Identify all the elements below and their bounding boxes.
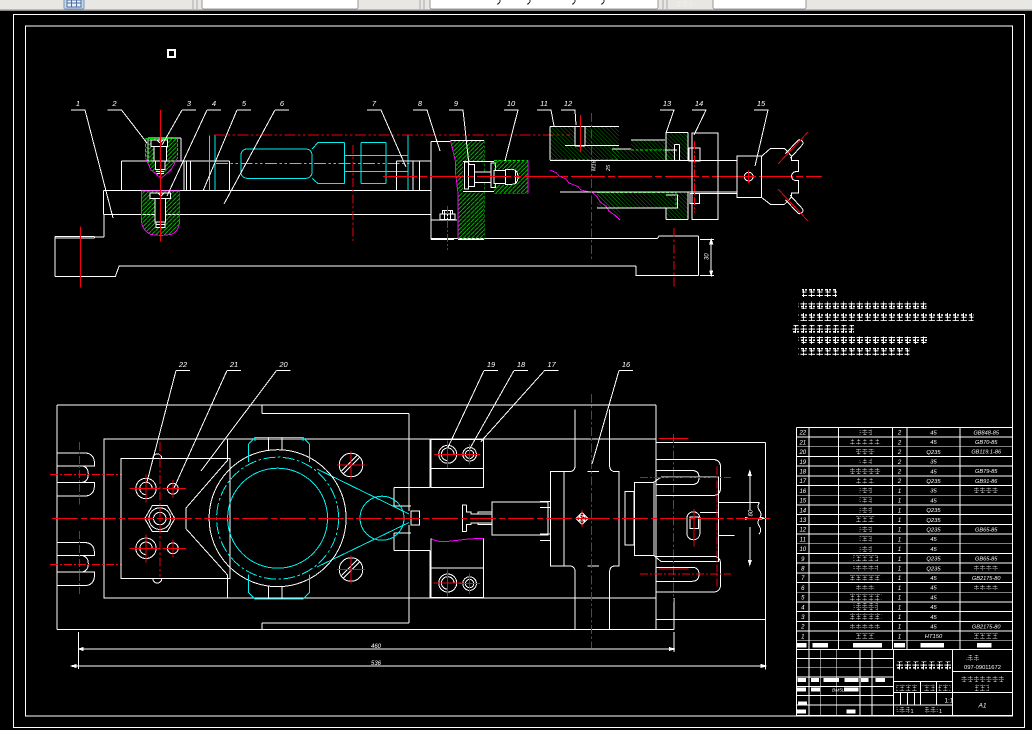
- support plate 6: [104, 191, 431, 215]
- svg-text:1: 1: [898, 634, 901, 640]
- toolbar combo box 1: [202, 0, 358, 9]
- shaft step: [625, 492, 634, 546]
- fixture body outline plan: [57, 405, 674, 630]
- bolt block top 17-19: [431, 440, 484, 488]
- handle grip lower: [778, 189, 808, 221]
- svg-text:2: 2: [897, 479, 902, 485]
- lower fastening screw hatch pocket: [142, 191, 180, 236]
- collar flange tab top: [249, 438, 310, 463]
- svg-text:45: 45: [930, 440, 937, 446]
- callout 9: [449, 99, 469, 165]
- center hole diamond: [576, 512, 588, 524]
- washer right: [689, 148, 700, 161]
- bracket block plan: [634, 477, 761, 561]
- workpiece connecting rod (phantom cyan): [210, 136, 411, 191]
- svg-text:11: 11: [800, 537, 806, 543]
- svg-text:45: 45: [930, 595, 937, 601]
- red horizontals through bolt rows: [130, 489, 187, 549]
- sleeve lower section: [597, 193, 688, 220]
- parts list table grid: [796, 427, 1012, 649]
- clamp stud and nut 9: [465, 162, 518, 189]
- svg-text:22: 22: [178, 360, 188, 369]
- svg-text:17: 17: [799, 479, 806, 485]
- svg-text:30: 30: [705, 253, 711, 260]
- parts list header row: [797, 643, 807, 648]
- svg-text:45: 45: [930, 547, 937, 553]
- callout 19: [448, 360, 498, 448]
- tech note line 3: [799, 337, 929, 345]
- part row 9: [801, 555, 998, 562]
- nut bracket 10 sectioned: [494, 160, 528, 193]
- rail centerline vertical: [591, 394, 593, 648]
- part row 4: [801, 603, 937, 611]
- bolt 22: [136, 478, 156, 498]
- movable V-block 7: [122, 138, 230, 191]
- svg-text:45: 45: [930, 431, 937, 437]
- drawing title cell: [961, 676, 1005, 683]
- svg-text:Q235: Q235: [926, 566, 941, 572]
- callout 3: [162, 99, 196, 145]
- svg-text:Q235: Q235: [926, 508, 941, 514]
- svg-text:1: 1: [898, 547, 901, 553]
- mounting plate 22-20 area: [121, 454, 230, 583]
- bracket slot centerline: [693, 509, 695, 546]
- dimension 60 vertical: [748, 471, 751, 565]
- title block grid: [796, 650, 1012, 716]
- callout 18: [470, 360, 528, 449]
- svg-text:10: 10: [799, 547, 806, 553]
- svg-text:14: 14: [799, 508, 806, 514]
- svg-text:45: 45: [930, 498, 937, 504]
- part row 7: [801, 575, 1001, 582]
- callout 4: [167, 99, 221, 196]
- svg-text:2: 2: [897, 470, 902, 476]
- fixture body base plate 1: [55, 215, 698, 277]
- callout 15: [754, 99, 768, 166]
- adjusting nut 14: [666, 132, 688, 161]
- svg-text:1: 1: [898, 489, 901, 495]
- svg-text:35: 35: [930, 489, 937, 495]
- red centerline x353: [352, 145, 354, 241]
- svg-text:GB65-85: GB65-85: [975, 527, 998, 533]
- svg-text:M16: M16: [592, 159, 598, 171]
- lower washer collar: [690, 194, 700, 204]
- guide blocks left of fixed V-block: [397, 161, 431, 191]
- V tip pad: [411, 511, 420, 525]
- svg-text:1: 1: [801, 634, 804, 640]
- dimension 30 right: [700, 239, 714, 275]
- svg-text:10: 10: [507, 99, 516, 108]
- part row 17: [799, 478, 998, 485]
- svg-text:Q235: Q235: [926, 518, 941, 524]
- part row 10: [799, 546, 937, 553]
- svg-text:1: 1: [898, 537, 901, 543]
- part row 3: [801, 613, 937, 621]
- handle grip upper: [778, 132, 808, 164]
- svg-text:BM5L8: BM5L8: [832, 687, 848, 693]
- svg-text:22: 22: [798, 431, 806, 437]
- svg-text:2: 2: [111, 99, 117, 108]
- svg-text:25: 25: [606, 164, 612, 172]
- stage mark qty scale labels: [896, 685, 918, 691]
- svg-text:Q235: Q235: [926, 557, 941, 563]
- tech note line 4: [799, 348, 910, 356]
- boss centerline front: [673, 228, 675, 288]
- callout 8: [413, 99, 440, 151]
- svg-text:35: 35: [930, 460, 937, 466]
- svg-text:Q235: Q235: [926, 528, 941, 534]
- svg-text:1: 1: [898, 567, 901, 573]
- guide rail 8 outline: [262, 405, 430, 630]
- screw 5 (upper slotted screw): [151, 140, 168, 173]
- svg-text:2: 2: [897, 460, 902, 466]
- slotted screw top: [339, 453, 363, 477]
- bolt lower: [136, 538, 156, 558]
- center hex bolt: [145, 506, 175, 532]
- svg-text:45: 45: [930, 576, 937, 582]
- svg-text:Q235: Q235: [926, 479, 941, 485]
- svg-text:16: 16: [799, 489, 806, 495]
- svg-text:A1: A1: [977, 703, 986, 710]
- svg-text:12: 12: [564, 99, 573, 108]
- main horizontal axis plan: [52, 517, 770, 519]
- screw 4 (lower screw): [150, 193, 171, 228]
- upper U-slot centerlines: [50, 442, 122, 505]
- selection grip: [168, 50, 175, 57]
- svg-text:1: 1: [939, 709, 942, 715]
- hold-down bolt on column: [440, 211, 455, 220]
- tech note line 2: [799, 313, 974, 321]
- bolt block bottom: [431, 539, 484, 598]
- part row 21: [798, 439, 998, 446]
- part row 5: [801, 593, 937, 601]
- callout 12: [561, 99, 576, 125]
- base plate plan: [104, 439, 656, 598]
- callout 21: [174, 360, 241, 488]
- part row 18: [799, 468, 998, 475]
- callout 2: [108, 99, 148, 143]
- svg-text:45: 45: [930, 625, 937, 631]
- part row 13: [799, 517, 941, 524]
- part row 12: [799, 526, 998, 533]
- support bracket 16 column: [692, 133, 718, 220]
- centerline of clamp screws: [160, 110, 162, 241]
- main axis centerline: [383, 176, 822, 178]
- svg-text:18: 18: [799, 470, 806, 476]
- svg-text:1: 1: [898, 508, 901, 514]
- sleeve bore lines: [550, 160, 737, 192]
- svg-text:45: 45: [930, 586, 937, 592]
- svg-text:21: 21: [229, 360, 238, 369]
- svg-text:2: 2: [897, 431, 902, 437]
- screw centerline 12: [591, 113, 593, 260]
- svg-text:1:1: 1:1: [945, 698, 954, 705]
- callout 17: [481, 360, 559, 442]
- svg-text:HT150: HT150: [925, 634, 943, 640]
- tech requirements heading: [802, 289, 837, 297]
- dimension 460: [79, 632, 674, 669]
- callout 11: [537, 99, 554, 126]
- svg-text:19: 19: [799, 460, 806, 466]
- svg-text:1: 1: [898, 528, 901, 534]
- callout 1: [71, 99, 113, 218]
- lower U-slot centerlines: [50, 531, 122, 594]
- svg-text:GB65-85: GB65-85: [975, 556, 998, 562]
- svg-text:45: 45: [930, 537, 937, 543]
- svg-text:1: 1: [911, 709, 914, 715]
- svg-text:45: 45: [930, 615, 937, 621]
- svg-text:4: 4: [212, 99, 216, 108]
- red centerline left base: [80, 227, 82, 288]
- part row 20: [798, 449, 1002, 456]
- dimension 536: [72, 620, 766, 670]
- svg-text:1: 1: [898, 557, 901, 563]
- callout 10: [504, 99, 518, 161]
- svg-text:GB70-85: GB70-85: [975, 440, 998, 446]
- collar flange tab bottom: [249, 574, 310, 599]
- svg-text:2: 2: [897, 440, 902, 446]
- signature marks left grid: [798, 678, 807, 682]
- svg-text:11: 11: [540, 99, 548, 108]
- callout 22: [147, 360, 190, 482]
- callout 6: [224, 99, 289, 204]
- V-block guide column 8: [431, 142, 457, 240]
- ear centerlines: [640, 478, 731, 575]
- fixed V-block 2 sectioned: [451, 141, 495, 240]
- part row 22: [798, 429, 999, 436]
- part row 15: [799, 497, 937, 504]
- pin hole lower: [167, 543, 178, 554]
- rail extension outline: [656, 443, 766, 620]
- sleeve thread band upper: [612, 140, 677, 160]
- svg-text:1: 1: [898, 605, 901, 611]
- svg-text:2: 2: [800, 625, 805, 631]
- axle shaft 12: [700, 161, 738, 194]
- svg-text:1: 1: [898, 576, 901, 582]
- svg-text:13: 13: [663, 99, 672, 108]
- callout 13: [660, 99, 674, 133]
- svg-text:1: 1: [898, 625, 901, 631]
- part row 1: [801, 633, 998, 640]
- svg-text:GB119.1-86: GB119.1-86: [971, 450, 1002, 456]
- svg-text:1: 1: [898, 615, 901, 621]
- right ear lower: [656, 556, 721, 592]
- svg-text:GB91-86: GB91-86: [975, 479, 998, 485]
- nut sleeve 13 top section: [550, 126, 619, 160]
- svg-text:20: 20: [278, 360, 288, 369]
- drawing number cell: [966, 655, 980, 661]
- toolbar icon: [64, 0, 84, 9]
- set screw centerline: [580, 115, 582, 152]
- svg-text:16: 16: [622, 360, 631, 369]
- phantom red line workpiece top: [214, 134, 570, 136]
- callout 7: [367, 99, 406, 167]
- svg-text:1: 1: [76, 99, 80, 108]
- svg-text:20: 20: [798, 450, 806, 456]
- handle hub 15: [737, 148, 798, 204]
- svg-text:2: 2: [897, 450, 902, 456]
- shaft continuation arrows: [745, 517, 766, 520]
- callout 20: [201, 360, 291, 471]
- part row 2: [800, 623, 1001, 630]
- slotted screw bottom: [339, 558, 363, 582]
- tech note line 2 wrap: [792, 325, 854, 333]
- svg-text:460: 460: [371, 644, 382, 650]
- svg-text:536: 536: [371, 661, 382, 667]
- svg-text:17: 17: [547, 360, 556, 369]
- svg-text:GB2175-80: GB2175-80: [972, 576, 1001, 582]
- svg-text:15: 15: [757, 99, 766, 108]
- svg-text:21: 21: [798, 440, 806, 446]
- toolbar combo box 2: [430, 0, 658, 9]
- part row 16: [799, 488, 998, 495]
- svg-text:45: 45: [930, 605, 937, 611]
- callout 14: [692, 99, 706, 135]
- svg-text:15: 15: [799, 499, 806, 505]
- svg-text:60: 60: [748, 509, 754, 516]
- part row 19: [799, 459, 937, 466]
- connecting screw 9 plan: [463, 502, 548, 535]
- collar outer circle white: [209, 450, 346, 587]
- svg-text:18: 18: [517, 360, 526, 369]
- right ear upper: [656, 460, 721, 496]
- svg-text:GB848-85: GB848-85: [973, 430, 999, 436]
- guide bar cross part 16: [540, 410, 619, 630]
- svg-text:1: 1: [898, 596, 901, 602]
- hub crosshair: [743, 171, 756, 184]
- text descenders: [497, 0, 604, 4]
- svg-text:19: 19: [487, 360, 496, 369]
- pin hole 21: [167, 483, 178, 494]
- svg-text:1: 1: [898, 518, 901, 524]
- svg-text:GB2175-80: GB2175-80: [972, 624, 1001, 630]
- part row 14: [799, 507, 941, 514]
- part row 11: [800, 536, 938, 543]
- part row 6: [801, 585, 998, 592]
- svg-text:1: 1: [898, 586, 901, 592]
- bracket centerline vertical: [673, 434, 675, 602]
- svg-text:097-09011672: 097-09011672: [964, 665, 1001, 671]
- svg-text:13: 13: [799, 518, 806, 524]
- callout 16: [592, 360, 633, 464]
- part row 8: [801, 565, 998, 572]
- bracket centerline: [694, 141, 696, 213]
- callout 5: [203, 99, 251, 191]
- svg-text:1: 1: [898, 499, 901, 505]
- svg-text:Q235: Q235: [926, 450, 941, 456]
- sheet count: [897, 707, 910, 713]
- toolbar combo box 3: [713, 0, 806, 9]
- school name: [895, 662, 952, 670]
- magenta break line left: [550, 170, 620, 220]
- svg-text:45: 45: [930, 469, 937, 475]
- upper clamp screw hatch pocket: [146, 139, 178, 179]
- plate centerline vertical: [159, 442, 161, 577]
- toolbar strip: [0, 0, 1032, 11]
- toolbar separators: [193, 0, 667, 9]
- tech note line 1: [799, 301, 927, 309]
- svg-text:14: 14: [695, 99, 703, 108]
- workpiece big end circles (cyan): [217, 457, 409, 579]
- left U-slot lower: [57, 543, 94, 586]
- fixed V-block plan (V notch): [186, 439, 228, 598]
- left U-slot upper: [57, 453, 94, 496]
- svg-text:12: 12: [799, 528, 806, 534]
- svg-text:GB79-85: GB79-85: [975, 469, 998, 475]
